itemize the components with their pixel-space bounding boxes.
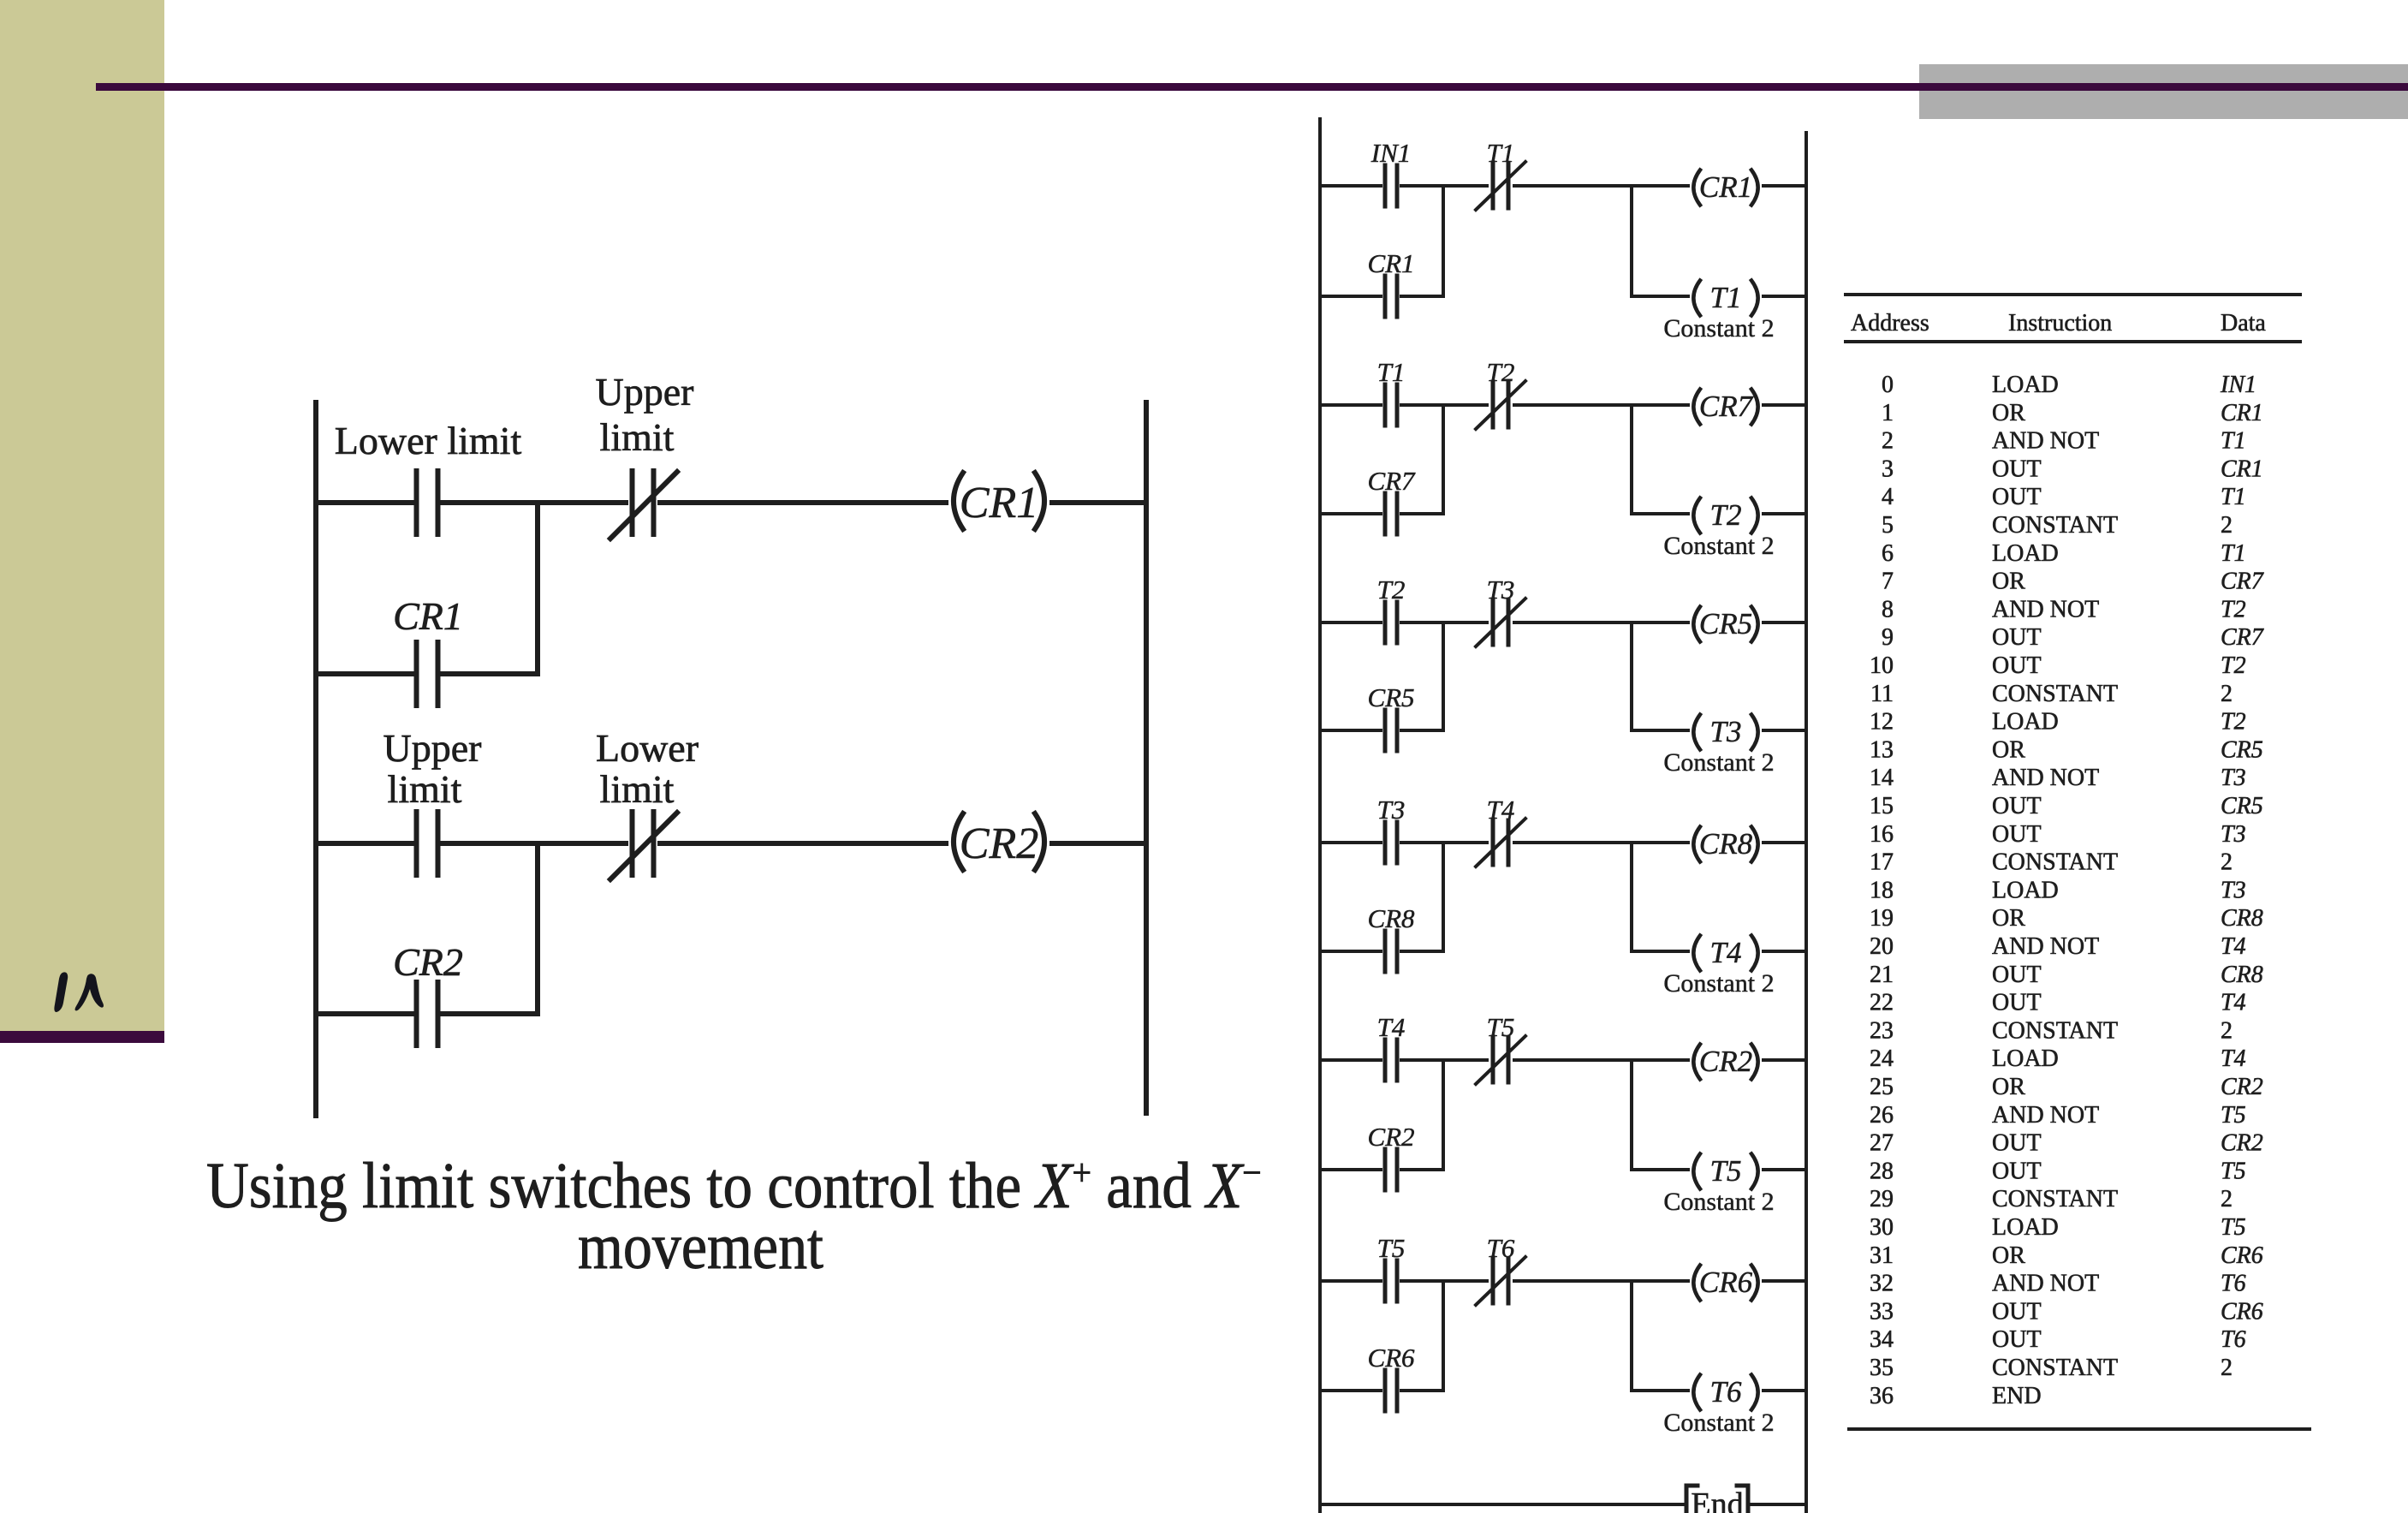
svg-text:CR7: CR7 bbox=[1367, 466, 1416, 496]
svg-text:5: 5 bbox=[1882, 512, 1894, 539]
svg-text:CR6: CR6 bbox=[1699, 1266, 1753, 1299]
svg-text:12: 12 bbox=[1870, 709, 1894, 736]
svg-text:20: 20 bbox=[1870, 933, 1894, 960]
svg-text:T2: T2 bbox=[2221, 709, 2246, 736]
svg-text:CR7: CR7 bbox=[1699, 390, 1754, 423]
svg-text:OUT: OUT bbox=[1992, 1326, 2042, 1353]
svg-text:34: 34 bbox=[1870, 1326, 1894, 1353]
svg-text:CONSTANT: CONSTANT bbox=[1992, 681, 2118, 707]
svg-text:Data: Data bbox=[2221, 310, 2266, 337]
svg-text:CR6: CR6 bbox=[2221, 1298, 2263, 1325]
svg-text:AND NOT: AND NOT bbox=[1992, 765, 2099, 791]
svg-text:OUT: OUT bbox=[1992, 793, 2042, 819]
svg-text:CR8: CR8 bbox=[2221, 962, 2263, 988]
svg-text:CR2: CR2 bbox=[393, 940, 463, 984]
svg-text:Constant 2: Constant 2 bbox=[1663, 1409, 1774, 1437]
svg-text:CR8: CR8 bbox=[2221, 905, 2263, 932]
svg-text:AND NOT: AND NOT bbox=[1992, 933, 2099, 960]
svg-text:CR5: CR5 bbox=[2221, 736, 2263, 763]
svg-text:OR: OR bbox=[1992, 1242, 2025, 1269]
svg-text:27: 27 bbox=[1870, 1130, 1894, 1157]
svg-text:CR2: CR2 bbox=[2221, 1130, 2263, 1157]
svg-text:CONSTANT: CONSTANT bbox=[1992, 849, 2118, 876]
svg-text:Upper: Upper bbox=[596, 370, 694, 414]
svg-text:CONSTANT: CONSTANT bbox=[1992, 512, 2118, 539]
svg-text:T6: T6 bbox=[1710, 1375, 1742, 1409]
svg-text:AND NOT: AND NOT bbox=[1992, 428, 2099, 455]
svg-text:T3: T3 bbox=[2221, 877, 2246, 903]
svg-text:T2: T2 bbox=[1487, 357, 1515, 387]
svg-text:OUT: OUT bbox=[1992, 484, 2042, 510]
svg-text:22: 22 bbox=[1870, 990, 1894, 1016]
svg-text:Upper: Upper bbox=[383, 726, 482, 770]
svg-text:OUT: OUT bbox=[1992, 652, 2042, 679]
svg-text:CR5: CR5 bbox=[2221, 793, 2263, 819]
svg-text:movement: movement bbox=[578, 1211, 823, 1283]
svg-text:T5: T5 bbox=[2221, 1102, 2246, 1129]
svg-text:T5: T5 bbox=[1487, 1012, 1515, 1042]
svg-text:limit: limit bbox=[388, 767, 462, 811]
svg-text:CR6: CR6 bbox=[1367, 1343, 1415, 1373]
svg-text:OR: OR bbox=[1992, 736, 2025, 763]
svg-text:Constant 2: Constant 2 bbox=[1663, 969, 1774, 998]
svg-text:T5: T5 bbox=[2221, 1158, 2246, 1184]
svg-text:OR: OR bbox=[1992, 569, 2025, 595]
svg-text:T1: T1 bbox=[2221, 540, 2246, 567]
svg-text:T1: T1 bbox=[2221, 428, 2246, 455]
svg-text:CR7: CR7 bbox=[2221, 569, 2264, 595]
svg-text:CR2: CR2 bbox=[1699, 1045, 1752, 1078]
svg-text:OUT: OUT bbox=[1992, 821, 2042, 848]
svg-text:Instruction: Instruction bbox=[2008, 310, 2112, 337]
svg-text:14: 14 bbox=[1870, 765, 1894, 791]
svg-text:T5: T5 bbox=[1710, 1154, 1742, 1188]
svg-text:T6: T6 bbox=[2221, 1326, 2246, 1353]
svg-text:Lower: Lower bbox=[596, 726, 699, 770]
svg-text:8: 8 bbox=[1882, 596, 1894, 622]
svg-text:CR2: CR2 bbox=[960, 819, 1038, 868]
svg-text:OUT: OUT bbox=[1992, 990, 2042, 1016]
svg-text:2: 2 bbox=[2221, 1186, 2233, 1212]
svg-text:19: 19 bbox=[1870, 905, 1894, 932]
svg-text:T5: T5 bbox=[2221, 1214, 2246, 1241]
svg-text:CONSTANT: CONSTANT bbox=[1992, 1186, 2118, 1212]
svg-text:28: 28 bbox=[1870, 1158, 1894, 1184]
svg-text:4: 4 bbox=[1882, 484, 1894, 510]
svg-text:T4: T4 bbox=[2221, 990, 2246, 1016]
svg-text:T6: T6 bbox=[2221, 1271, 2246, 1297]
svg-text:9: 9 bbox=[1882, 624, 1894, 651]
svg-text:CONSTANT: CONSTANT bbox=[1992, 1355, 2118, 1381]
svg-text:CONSTANT: CONSTANT bbox=[1992, 1017, 2118, 1044]
svg-text:17: 17 bbox=[1870, 849, 1894, 876]
svg-text:OUT: OUT bbox=[1992, 1158, 2042, 1184]
svg-text:OR: OR bbox=[1992, 400, 2025, 426]
svg-text:2: 2 bbox=[2221, 1355, 2233, 1381]
svg-text:35: 35 bbox=[1870, 1355, 1894, 1381]
svg-text:AND NOT: AND NOT bbox=[1992, 1102, 2099, 1129]
svg-text:limit: limit bbox=[600, 415, 675, 459]
svg-text:30: 30 bbox=[1870, 1214, 1894, 1241]
svg-text:T1: T1 bbox=[1377, 357, 1406, 387]
svg-text:T2: T2 bbox=[2221, 596, 2246, 622]
svg-text:CR1: CR1 bbox=[393, 594, 463, 638]
svg-text:T2: T2 bbox=[1710, 498, 1742, 532]
svg-text:6: 6 bbox=[1882, 540, 1894, 567]
svg-text:3: 3 bbox=[1882, 456, 1894, 482]
svg-text:T4: T4 bbox=[1377, 1012, 1406, 1042]
svg-text:CR8: CR8 bbox=[1699, 827, 1753, 861]
svg-text:IN1: IN1 bbox=[1370, 138, 1412, 168]
svg-text:Address: Address bbox=[1851, 310, 1929, 337]
svg-text:Constant 2: Constant 2 bbox=[1663, 314, 1774, 343]
svg-text:LOAD: LOAD bbox=[1992, 709, 2059, 736]
svg-text:T3: T3 bbox=[2221, 821, 2246, 848]
svg-text:T3: T3 bbox=[1487, 575, 1515, 605]
svg-text:23: 23 bbox=[1870, 1017, 1894, 1044]
svg-text:T1: T1 bbox=[1710, 281, 1742, 314]
svg-text:T4: T4 bbox=[2221, 1045, 2246, 1072]
svg-text:OR: OR bbox=[1992, 1074, 2025, 1100]
svg-text:11: 11 bbox=[1870, 681, 1894, 707]
svg-text:CR2: CR2 bbox=[1367, 1122, 1414, 1152]
svg-text:CR1: CR1 bbox=[960, 479, 1038, 527]
svg-text:OUT: OUT bbox=[1992, 624, 2042, 651]
svg-text:T5: T5 bbox=[1377, 1233, 1406, 1263]
svg-text:AND NOT: AND NOT bbox=[1992, 596, 2099, 622]
svg-text:T3: T3 bbox=[2221, 765, 2246, 791]
svg-text:29: 29 bbox=[1870, 1186, 1894, 1212]
svg-text:IN1: IN1 bbox=[2220, 372, 2256, 398]
svg-text:LOAD: LOAD bbox=[1992, 877, 2059, 903]
svg-text:2: 2 bbox=[2221, 512, 2233, 539]
svg-text:T3: T3 bbox=[1710, 715, 1742, 748]
svg-text:limit: limit bbox=[600, 767, 675, 811]
svg-text:T1: T1 bbox=[2221, 484, 2246, 510]
svg-text:LOAD: LOAD bbox=[1992, 1045, 2059, 1072]
svg-text:T2: T2 bbox=[2221, 652, 2246, 679]
svg-text:13: 13 bbox=[1870, 736, 1894, 763]
svg-text:T2: T2 bbox=[1377, 575, 1406, 605]
svg-text:2: 2 bbox=[2221, 1017, 2233, 1044]
svg-text:Lower limit: Lower limit bbox=[335, 419, 522, 462]
svg-text:33: 33 bbox=[1870, 1298, 1894, 1325]
svg-text:OUT: OUT bbox=[1992, 1298, 2042, 1325]
svg-text:26: 26 bbox=[1870, 1102, 1894, 1129]
svg-text:0: 0 bbox=[1882, 372, 1894, 398]
svg-text:2: 2 bbox=[1882, 428, 1894, 455]
svg-text:36: 36 bbox=[1870, 1383, 1894, 1409]
svg-text:END: END bbox=[1992, 1383, 2042, 1409]
svg-text:OR: OR bbox=[1992, 905, 2025, 932]
svg-text:Constant 2: Constant 2 bbox=[1663, 748, 1774, 777]
svg-text:7: 7 bbox=[1882, 569, 1894, 595]
svg-text:End: End bbox=[1691, 1486, 1743, 1513]
svg-text:AND NOT: AND NOT bbox=[1992, 1271, 2099, 1297]
svg-text:CR2: CR2 bbox=[2221, 1074, 2263, 1100]
svg-text:CR5: CR5 bbox=[1699, 607, 1752, 640]
svg-text:15: 15 bbox=[1870, 793, 1894, 819]
svg-text:LOAD: LOAD bbox=[1992, 372, 2059, 398]
svg-text:CR1: CR1 bbox=[1699, 170, 1752, 204]
svg-text:16: 16 bbox=[1870, 821, 1894, 848]
svg-text:CR8: CR8 bbox=[1367, 903, 1415, 933]
svg-text:CR6: CR6 bbox=[2221, 1242, 2263, 1269]
svg-text:10: 10 bbox=[1870, 652, 1894, 679]
svg-text:CR1: CR1 bbox=[2221, 456, 2263, 482]
svg-text:CR7: CR7 bbox=[2221, 624, 2264, 651]
svg-text:T3: T3 bbox=[1377, 795, 1406, 825]
svg-text:OUT: OUT bbox=[1992, 962, 2042, 988]
svg-text:2: 2 bbox=[2221, 849, 2233, 876]
svg-text:T4: T4 bbox=[1487, 795, 1515, 825]
svg-text:Constant 2: Constant 2 bbox=[1663, 532, 1774, 560]
svg-text:CR5: CR5 bbox=[1367, 682, 1414, 712]
svg-text:T6: T6 bbox=[1487, 1233, 1515, 1263]
svg-text:31: 31 bbox=[1870, 1242, 1894, 1269]
svg-text:32: 32 bbox=[1870, 1271, 1894, 1297]
svg-text:LOAD: LOAD bbox=[1992, 540, 2059, 567]
svg-text:T1: T1 bbox=[1487, 138, 1515, 168]
svg-text:25: 25 bbox=[1870, 1074, 1894, 1100]
svg-text:LOAD: LOAD bbox=[1992, 1214, 2059, 1241]
svg-text:Constant 2: Constant 2 bbox=[1663, 1188, 1774, 1216]
svg-text:CR1: CR1 bbox=[1367, 248, 1414, 278]
svg-text:2: 2 bbox=[2221, 681, 2233, 707]
svg-text:T4: T4 bbox=[1710, 936, 1742, 969]
svg-text:21: 21 bbox=[1870, 962, 1894, 988]
svg-text:CR1: CR1 bbox=[2221, 400, 2263, 426]
svg-text:T4: T4 bbox=[2221, 933, 2246, 960]
svg-text:OUT: OUT bbox=[1992, 1130, 2042, 1157]
svg-text:OUT: OUT bbox=[1992, 456, 2042, 482]
svg-text:24: 24 bbox=[1870, 1045, 1894, 1072]
svg-text:18: 18 bbox=[1870, 877, 1894, 903]
svg-text:1: 1 bbox=[1882, 400, 1894, 426]
